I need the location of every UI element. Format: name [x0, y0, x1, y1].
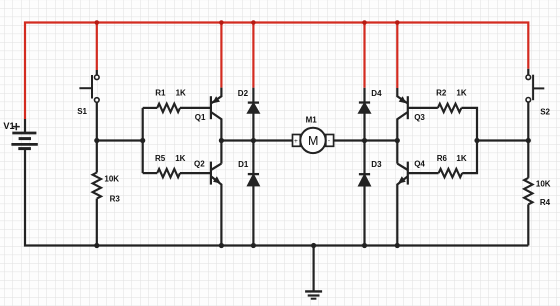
svg-text:1K: 1K — [175, 154, 185, 163]
svg-text:D4: D4 — [371, 89, 382, 98]
svg-text:D1: D1 — [238, 160, 249, 169]
svg-text:S1: S1 — [77, 107, 87, 116]
svg-text:M: M — [308, 134, 318, 148]
svg-text:M1: M1 — [306, 115, 318, 124]
svg-text:+: + — [294, 138, 298, 145]
svg-text:10K: 10K — [536, 180, 551, 189]
svg-text:R5: R5 — [155, 154, 166, 163]
svg-text:1K: 1K — [456, 88, 466, 97]
svg-text:Q3: Q3 — [414, 113, 425, 122]
svg-text:R6: R6 — [437, 154, 448, 163]
svg-text:1K: 1K — [456, 154, 466, 163]
svg-text:R4: R4 — [540, 198, 551, 207]
svg-text:V1: V1 — [3, 121, 14, 131]
svg-text:Q2: Q2 — [194, 160, 205, 169]
svg-text:R1: R1 — [155, 88, 166, 97]
svg-text:D2: D2 — [238, 89, 249, 98]
svg-text:R3: R3 — [110, 195, 121, 204]
svg-text:D3: D3 — [371, 160, 382, 169]
svg-text:10K: 10K — [104, 174, 119, 183]
svg-text:Q4: Q4 — [414, 160, 425, 169]
svg-text:1K: 1K — [176, 88, 186, 97]
svg-text:-: - — [328, 138, 330, 145]
svg-text:S2: S2 — [540, 108, 550, 117]
svg-text:R2: R2 — [436, 88, 447, 97]
svg-text:Q1: Q1 — [195, 113, 206, 122]
